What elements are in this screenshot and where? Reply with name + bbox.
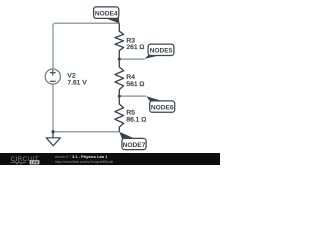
- node flag NODE4: [94, 7, 120, 24]
- svg-text:261 Ω: 261 Ω: [126, 44, 144, 51]
- wire stub node between R3 and R4 to NODE5 flag: [119, 58, 144, 60]
- footer logo LAB box: [30, 160, 40, 164]
- node dot NODE5 junction: [118, 58, 121, 61]
- footer bar: [0, 153, 220, 165]
- svg-text:http://circuitlab.com/c7znqmb8: http://circuitlab.com/c7znqmb85xu8: [55, 160, 113, 164]
- R5 value label: [126, 110, 146, 124]
- wire stub node between R4 and R5 to NODE6 flag: [119, 95, 146, 97]
- svg-text:etsalm7 / 3.1 - Physics Lab 1: etsalm7 / 3.1 - Physics Lab 1: [55, 154, 108, 159]
- wire bottom from ground node to R5 bottom: [53, 131, 119, 133]
- svg-text:NODE5: NODE5: [150, 48, 173, 55]
- ground: [46, 132, 60, 146]
- svg-text:LAB: LAB: [31, 161, 39, 165]
- svg-text:NODE6: NODE6: [151, 104, 174, 111]
- node flag NODE7: [119, 132, 146, 150]
- wire V2 bottom to ground node: [52, 84, 54, 132]
- svg-text:561 Ω: 561 Ω: [126, 81, 144, 88]
- R4 value label: [126, 74, 144, 88]
- resistor R3: [115, 23, 124, 59]
- resistor R5: [115, 96, 124, 132]
- node dot at ground junction: [51, 130, 54, 133]
- svg-text:NODE4: NODE4: [95, 10, 118, 17]
- node flag NODE6: [146, 96, 175, 112]
- svg-text:V2: V2: [67, 72, 75, 79]
- voltage source V2: [45, 69, 60, 84]
- svg-text:NODE7: NODE7: [123, 142, 146, 149]
- wire top from V2 to R3 top: [53, 23, 119, 69]
- node flag NODE5: [145, 44, 174, 59]
- V2 value label: [67, 72, 87, 86]
- R3 value label: [126, 37, 144, 51]
- svg-text:86.1 Ω: 86.1 Ω: [126, 116, 146, 123]
- footer logo wire squiggle: [11, 162, 26, 164]
- node dot NODE6 junction: [118, 95, 121, 98]
- svg-text:7.61 V: 7.61 V: [67, 79, 87, 86]
- resistor R4: [115, 59, 124, 96]
